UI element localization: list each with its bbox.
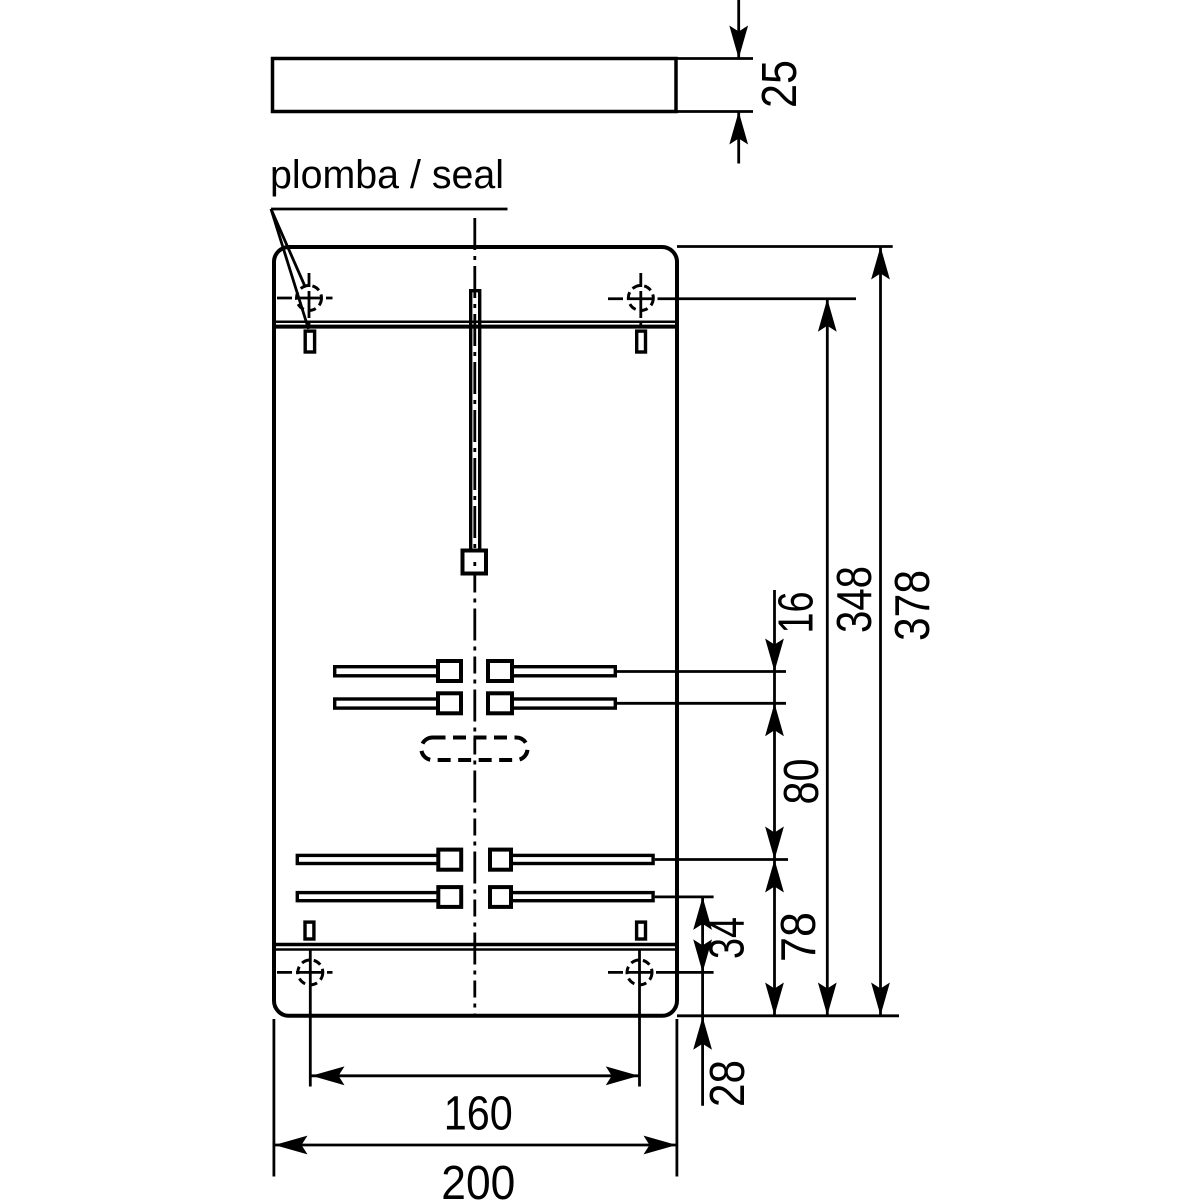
svg-text:348: 348 [828,566,882,633]
svg-text:28: 28 [701,1060,755,1107]
svg-text:34: 34 [701,917,755,959]
svg-text:160: 160 [444,1087,513,1141]
svg-text:16: 16 [770,592,824,634]
svg-text:80: 80 [775,759,829,805]
svg-text:25: 25 [753,60,807,108]
svg-text:plomba / seal: plomba / seal [270,153,504,197]
svg-text:78: 78 [772,912,826,962]
svg-text:378: 378 [886,570,940,641]
svg-text:200: 200 [441,1156,515,1200]
